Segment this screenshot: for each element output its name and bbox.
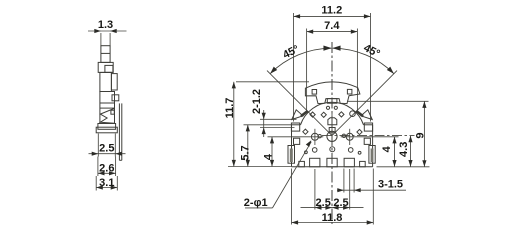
svg-text:2.5: 2.5	[316, 197, 331, 209]
body left wall	[292, 125, 301, 167]
base gray block right	[360, 161, 366, 166]
svg-text:4.3: 4.3	[398, 142, 410, 157]
right small square	[364, 138, 370, 144]
body dome arc	[301, 102, 364, 125]
lever (actuator bar)	[305, 82, 360, 104]
dimension 4.3 (right)	[398, 136, 413, 167]
dimension 5.7 (left)	[239, 125, 291, 167]
diamond mid left	[303, 129, 308, 134]
dimension 2-1.2 (left)	[251, 89, 297, 137]
side view terminal zigzag	[100, 108, 114, 123]
dimension 4 (right)	[381, 137, 397, 167]
svg-text:7.4: 7.4	[324, 20, 340, 32]
45 degree fan line left	[267, 71, 332, 136]
tiny circle right	[358, 151, 361, 154]
angular dimension arc right with 45° label	[332, 42, 395, 75]
leader 2-phi1	[244, 139, 313, 209]
dimension 11.8 (bottom)	[292, 169, 374, 225]
side view body column	[100, 72, 119, 123]
svg-text:11.8: 11.8	[322, 212, 343, 224]
svg-text:45°: 45°	[281, 43, 301, 61]
side view flange	[96, 124, 117, 133]
small circle mid right	[342, 134, 345, 137]
dimension 9 (right)	[347, 101, 430, 167]
body right wall	[364, 125, 373, 167]
left triangle tab	[292, 110, 303, 120]
svg-text:5.7: 5.7	[239, 145, 251, 160]
svg-text:45°: 45°	[362, 42, 382, 60]
right triangle tab	[361, 110, 372, 120]
ring circles top	[326, 106, 329, 109]
svg-text:1.3: 1.3	[98, 19, 113, 31]
dimension 11.2 (top)	[294, 5, 371, 122]
small circle mid left	[318, 135, 321, 138]
hole phi1 right	[341, 129, 399, 145]
circle under shaft	[330, 147, 335, 152]
left small square	[294, 138, 300, 144]
dimension 2.5 (side view)	[89, 134, 126, 157]
svg-text:2-1.2: 2-1.2	[251, 89, 263, 114]
medium circle left	[312, 148, 317, 153]
svg-text:11.7: 11.7	[224, 98, 236, 119]
side view shaft	[101, 46, 110, 63]
svg-text:4: 4	[381, 145, 393, 152]
svg-text:9: 9	[415, 132, 427, 138]
dimension 2.6 (side view)	[98, 157, 116, 177]
dimension 7.4	[307, 20, 358, 110]
body bottom edge	[292, 166, 373, 168]
terminal slot left	[310, 158, 320, 167]
svg-text:11.2: 11.2	[321, 5, 342, 17]
center shaft circle with cross	[327, 111, 337, 146]
svg-text:2-φ1: 2-φ1	[244, 197, 268, 209]
center hexagon	[328, 118, 337, 125]
dimension 11.7 (left)	[224, 82, 309, 167]
diamond row	[310, 112, 315, 117]
dimension 2.5 2.5 (bottom)	[301, 169, 364, 210]
dimension 1.3 (shaft width, side view)	[88, 19, 127, 47]
terminal slot center	[327, 158, 337, 167]
center small square	[329, 128, 335, 133]
angular dimension arc left with 45° label	[268, 43, 331, 75]
left corner square	[291, 123, 299, 131]
horizontal center line through shaft (dash-dot)	[322, 135, 415, 137]
45 degree fan line right	[332, 71, 397, 136]
diamond mid right	[357, 129, 362, 134]
terminal slot right	[344, 158, 354, 167]
right side pad	[369, 146, 375, 164]
svg-text:4: 4	[262, 153, 274, 160]
medium circle right	[348, 148, 353, 153]
side view terminal pin	[119, 103, 121, 160]
dimension 4 (left)	[262, 137, 274, 167]
left side pad	[288, 146, 295, 164]
dimension 3.1 (side view)	[96, 176, 117, 191]
svg-text:2.5: 2.5	[333, 197, 348, 209]
tiny circle left	[305, 151, 308, 154]
base gray block left	[299, 161, 305, 166]
circle upper right	[350, 111, 356, 117]
dimension 3-1.5 (bottom right)	[337, 169, 406, 193]
svg-text:2.5: 2.5	[99, 142, 114, 154]
side view collar	[98, 62, 113, 72]
right corner square	[364, 123, 372, 131]
svg-text:3-1.5: 3-1.5	[378, 178, 403, 190]
hole phi1 left	[268, 129, 324, 145]
vertical center line (dash-dot)	[331, 42, 333, 224]
